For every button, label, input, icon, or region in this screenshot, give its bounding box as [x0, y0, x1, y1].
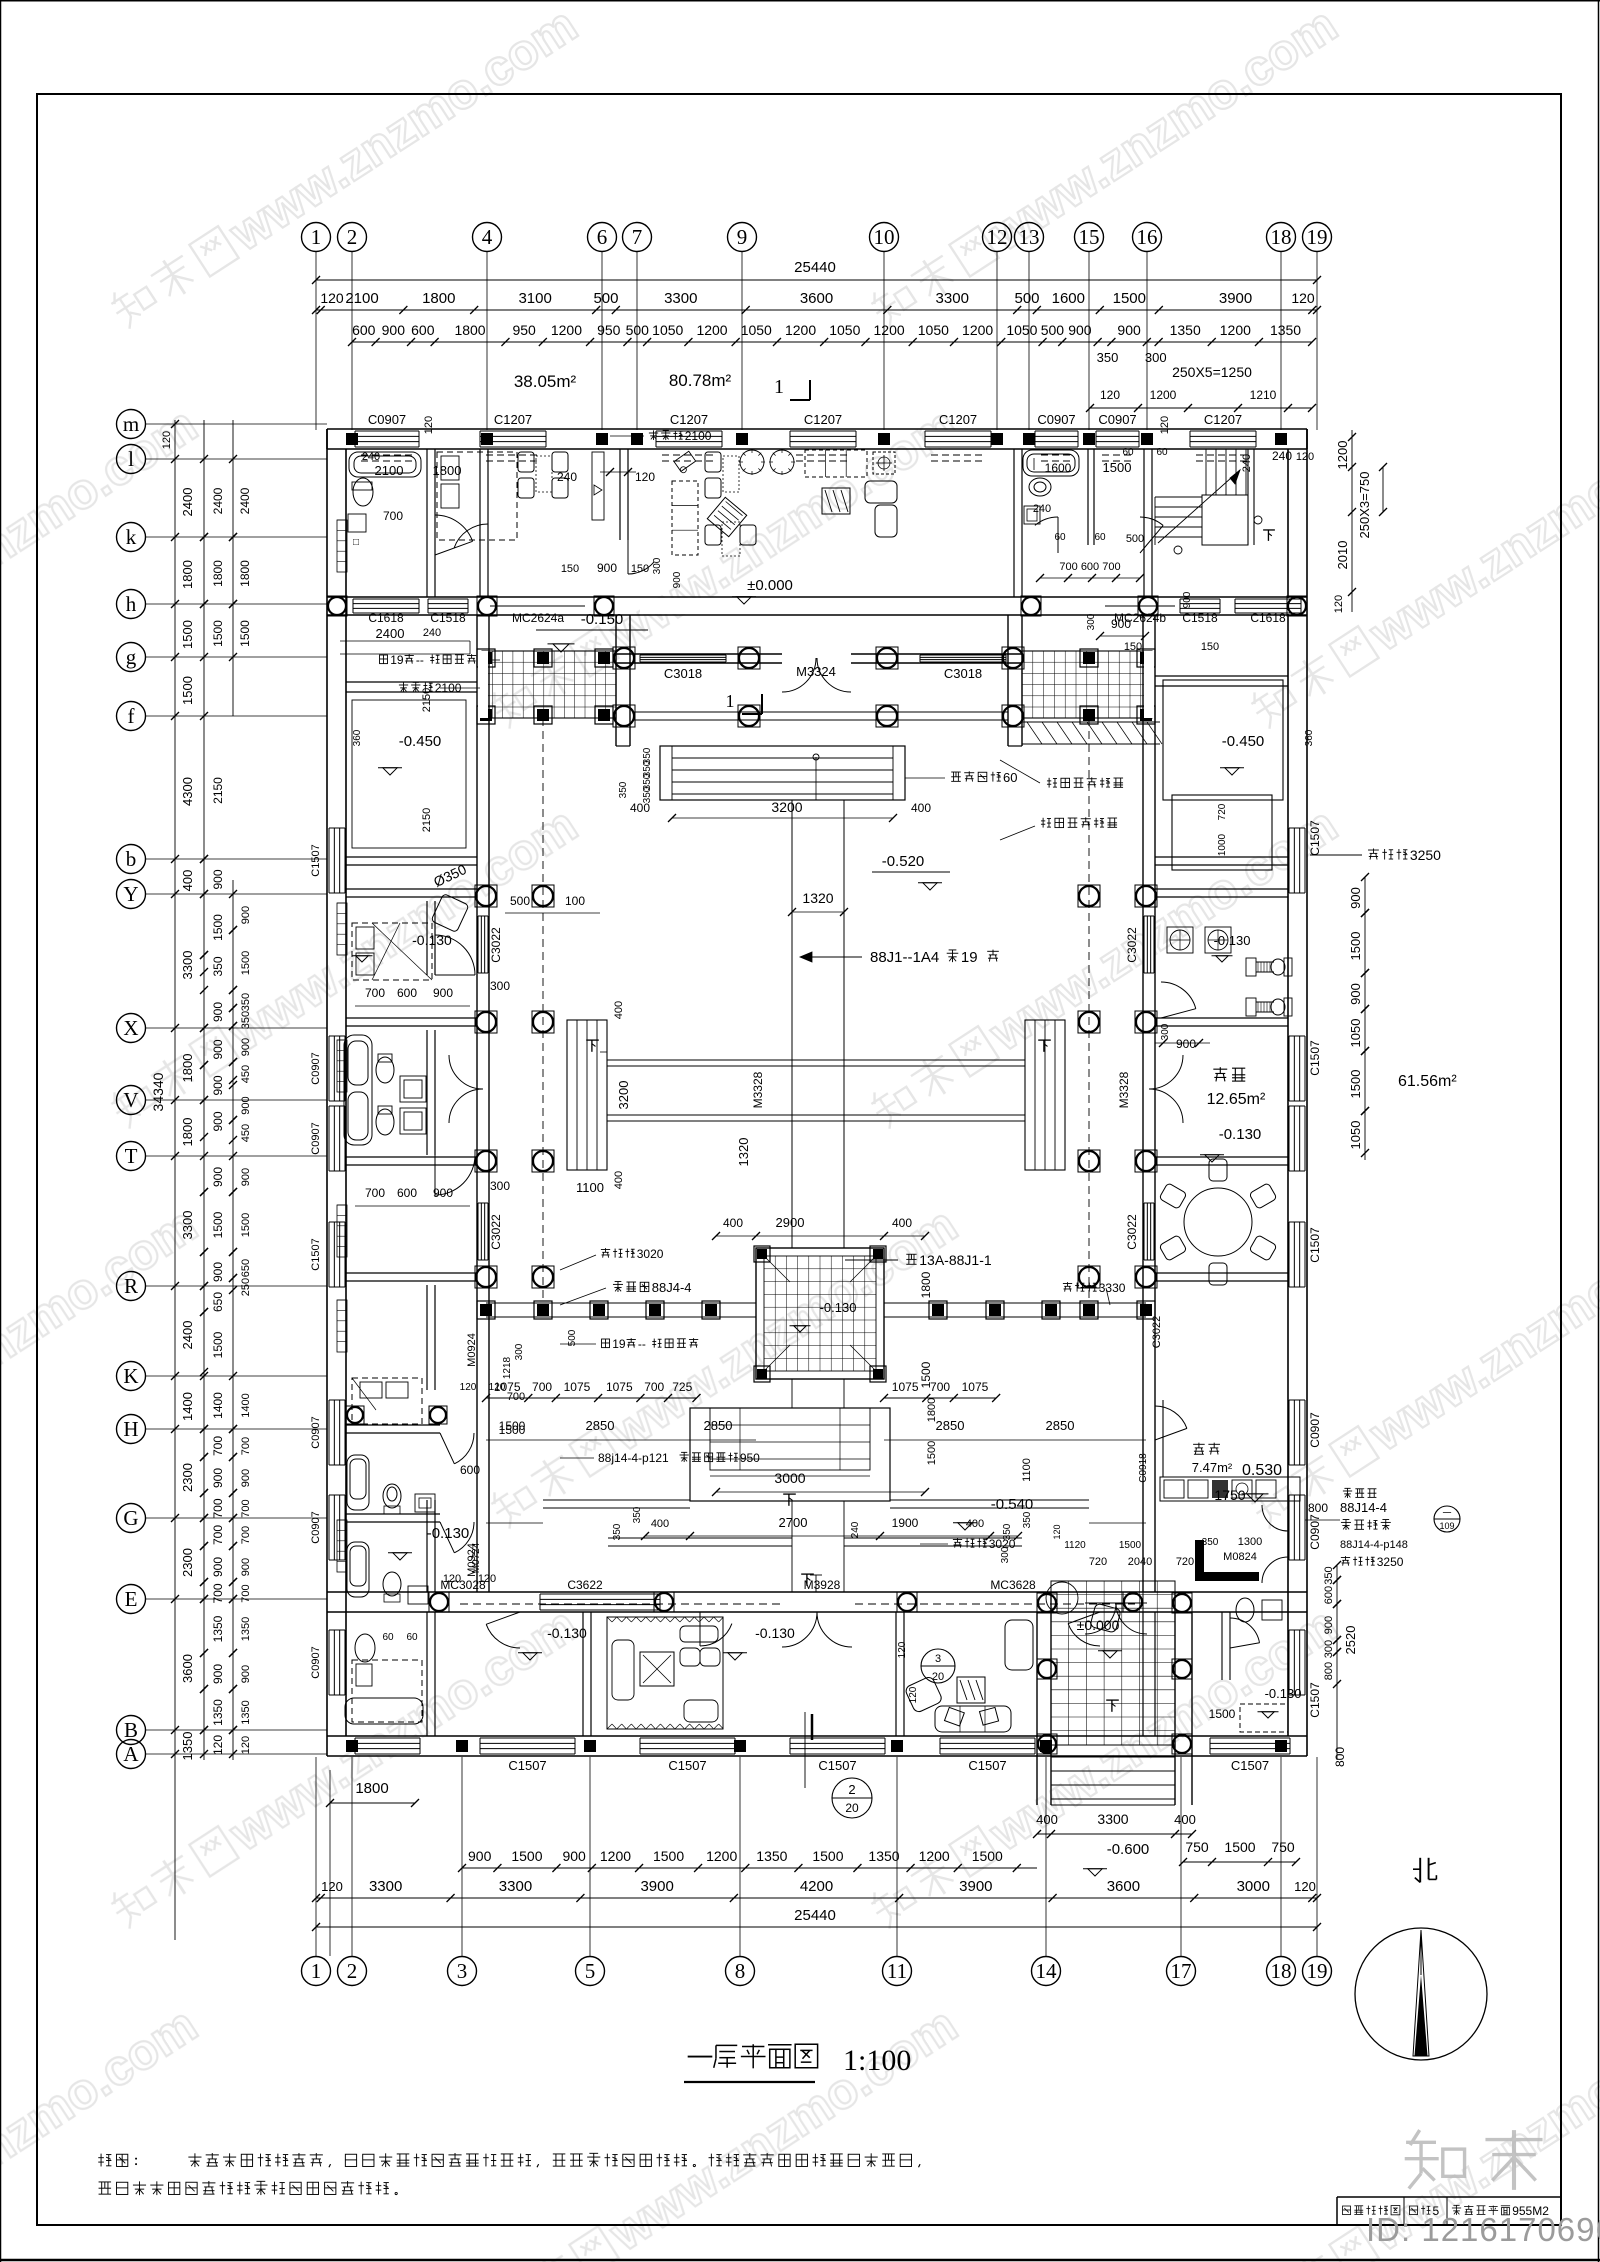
nb tall sofa dotted	[672, 481, 698, 555]
svg-text:1200: 1200	[962, 322, 993, 338]
svg-text:12.65m²: 12.65m²	[1207, 1091, 1266, 1108]
north wall columns	[346, 433, 358, 445]
east wing room label	[1213, 1068, 1227, 1070]
svg-text:700: 700	[930, 1380, 950, 1394]
svg-text:900: 900	[211, 1262, 225, 1282]
svg-text:C0907: C0907	[368, 412, 406, 427]
svg-text:4: 4	[482, 225, 493, 249]
left dim chain third	[232, 420, 234, 716]
svg-text:1500: 1500	[972, 1848, 1003, 1864]
svg-text:1500: 1500	[1209, 1707, 1236, 1721]
svg-text:300: 300	[490, 1179, 510, 1193]
svg-text:2300: 2300	[180, 1548, 195, 1577]
svg-text:900: 900	[211, 1557, 225, 1577]
svg-text:88j14-4-p121: 88j14-4-p121	[598, 1451, 669, 1465]
svg-text:3300: 3300	[936, 290, 969, 307]
svg-text:C3022: C3022	[489, 1214, 503, 1250]
svg-text:C0907: C0907	[310, 1646, 322, 1678]
svg-text:B: B	[124, 1718, 138, 1742]
bottom dim small row	[462, 1867, 1037, 1869]
gatehouse steps below	[1051, 1756, 1175, 1758]
svg-text:19: 19	[1307, 225, 1328, 249]
bottom axis circles	[302, 1957, 331, 1986]
svg-text:1500: 1500	[926, 1441, 938, 1465]
svg-text:www.znzmo.com: www.znzmo.com	[219, 1596, 587, 1862]
svg-text:1800: 1800	[180, 1118, 195, 1147]
south rooms partitions	[426, 1612, 428, 1736]
svg-text:1500: 1500	[511, 1848, 542, 1864]
svg-text:1210: 1210	[1250, 388, 1277, 402]
svg-text:1050: 1050	[918, 322, 949, 338]
svg-text:C1207: C1207	[804, 412, 842, 427]
svg-text:900: 900	[468, 1848, 492, 1864]
svg-text:1800: 1800	[238, 560, 252, 587]
svg-text:1800: 1800	[180, 560, 195, 589]
nb stripe square	[822, 488, 850, 514]
left axis circles	[117, 410, 146, 439]
svg-text:1350: 1350	[868, 1848, 899, 1864]
svg-text:3900: 3900	[959, 1878, 992, 1895]
svg-text:1350: 1350	[240, 1700, 252, 1724]
svg-text:900: 900	[211, 1468, 225, 1488]
svg-text:MC3028: MC3028	[440, 1578, 486, 1592]
svg-text:C0918: C0918	[1138, 1453, 1149, 1483]
courtyard north steps	[660, 746, 905, 800]
svg-text:80.78m²: 80.78m²	[669, 371, 732, 390]
svg-text:1200: 1200	[1150, 388, 1177, 402]
svg-text:900: 900	[1323, 1616, 1335, 1634]
svg-text:7.47m²: 7.47m²	[1192, 1460, 1233, 1475]
colonnade labels	[601, 1248, 610, 1250]
svg-text:2400: 2400	[376, 626, 405, 641]
svg-text:1500: 1500	[211, 1331, 225, 1358]
svg-text:9: 9	[737, 225, 748, 249]
right dim chain top	[1351, 430, 1353, 612]
svg-text:300: 300	[1160, 1023, 1171, 1040]
south exterior wall	[327, 1735, 1307, 1737]
svg-text:1500: 1500	[1119, 1540, 1142, 1551]
ne window marks	[1033, 458, 1035, 470]
nb plants	[740, 450, 764, 474]
svg-text:-0.130: -0.130	[820, 1300, 857, 1315]
svg-text:500: 500	[510, 894, 530, 908]
svg-text:1050: 1050	[1348, 1121, 1363, 1150]
west wing radiators	[337, 903, 347, 955]
svg-text:120: 120	[1291, 290, 1315, 306]
svg-text:1075: 1075	[606, 1380, 633, 1394]
svg-text:-0.150: -0.150	[581, 611, 624, 628]
svg-text:1200: 1200	[785, 322, 816, 338]
screen wall	[1195, 1572, 1259, 1581]
svg-text:300: 300	[1086, 613, 1097, 630]
west wing interior partitions	[346, 856, 477, 858]
top dimension row minor	[352, 341, 1312, 343]
svg-text:13: 13	[1019, 225, 1040, 249]
svg-text:120: 120	[897, 1641, 908, 1658]
svg-text:350: 350	[1323, 1566, 1335, 1584]
svg-text:C1507: C1507	[1231, 1758, 1269, 1773]
svg-text:400: 400	[613, 1171, 625, 1189]
svg-text:950: 950	[740, 1451, 760, 1465]
svg-text:900: 900	[240, 906, 252, 924]
svg-text:400: 400	[1174, 1812, 1196, 1827]
svg-text:-0.130: -0.130	[1265, 1686, 1302, 1701]
svg-text:600: 600	[411, 322, 435, 338]
nb door1	[435, 515, 473, 541]
svg-text:900: 900	[240, 1168, 252, 1186]
svg-text:2: 2	[848, 1782, 855, 1797]
svg-text:16: 16	[1137, 225, 1158, 249]
svg-text:300: 300	[652, 557, 663, 574]
west wing east wall	[476, 615, 478, 1592]
svg-text:1050: 1050	[829, 322, 860, 338]
svg-text:3300: 3300	[499, 1878, 532, 1895]
svg-text:900: 900	[240, 1096, 252, 1114]
svg-text:600: 600	[397, 986, 417, 1000]
bottom dim major row	[316, 1897, 1317, 1899]
svg-text:2700: 2700	[779, 1515, 808, 1530]
svg-text:±0.000: ±0.000	[1077, 1617, 1120, 1633]
svg-text:2850: 2850	[1046, 1418, 1075, 1433]
svg-text:C3022: C3022	[1125, 927, 1139, 963]
west yard walls	[346, 681, 477, 683]
svg-text:3330: 3330	[1099, 1281, 1126, 1295]
svg-text:900: 900	[240, 1469, 252, 1487]
svg-text:1075: 1075	[564, 1380, 591, 1394]
right dim chain middle	[1364, 877, 1366, 1160]
svg-text:l: l	[128, 447, 134, 471]
svg-text:3300: 3300	[369, 1878, 402, 1895]
svg-text:2150: 2150	[421, 808, 433, 832]
svg-text:500: 500	[1041, 322, 1065, 338]
svg-text:350: 350	[240, 993, 252, 1011]
svg-text:2850: 2850	[936, 1418, 965, 1433]
svg-text:120: 120	[423, 416, 435, 434]
svg-text:350: 350	[1202, 1537, 1219, 1548]
svg-text:3300: 3300	[664, 290, 697, 307]
circle 2/20 below	[832, 1778, 872, 1818]
title block	[1337, 2196, 1561, 2198]
svg-text:1500: 1500	[238, 620, 252, 647]
west corridor steps	[567, 1020, 607, 1170]
svg-text:1200: 1200	[1335, 441, 1350, 470]
east wing toilets	[1246, 958, 1256, 976]
svg-text:C1207: C1207	[494, 412, 532, 427]
svg-text:2400: 2400	[238, 487, 252, 514]
svg-text:3300: 3300	[1097, 1811, 1128, 1827]
svg-text:400: 400	[651, 1518, 669, 1530]
svg-text:2040: 2040	[1128, 1556, 1152, 1568]
svg-text:M3328: M3328	[1117, 1071, 1131, 1108]
svg-text:1320: 1320	[802, 890, 833, 906]
corridor vertical lines	[791, 800, 793, 1248]
svg-text:2400: 2400	[180, 1321, 195, 1350]
svg-text:14: 14	[1036, 1959, 1058, 1983]
svg-text:3: 3	[457, 1959, 468, 1983]
svg-text:150: 150	[1201, 641, 1219, 653]
svg-text:900: 900	[672, 571, 683, 588]
svg-text:MC2624a: MC2624a	[512, 611, 564, 625]
south building north wall	[327, 1591, 1307, 1593]
svg-text:800: 800	[1308, 1501, 1328, 1515]
svg-text:109: 109	[1439, 1521, 1454, 1531]
west wing bath H-G	[347, 1455, 369, 1510]
svg-text:2850: 2850	[586, 1418, 615, 1433]
svg-text:1500: 1500	[211, 914, 225, 941]
svg-text:360: 360	[352, 729, 363, 746]
svg-text:-0.130: -0.130	[755, 1625, 795, 1641]
svg-text:--: --	[638, 1337, 646, 1351]
north arrow	[1419, 1858, 1421, 1883]
svg-text:120: 120	[1052, 1524, 1062, 1539]
svg-text:-0.540: -0.540	[991, 1496, 1034, 1513]
svg-text:100: 100	[565, 894, 585, 908]
svg-text:E: E	[125, 1587, 138, 1611]
svg-text:240: 240	[1241, 454, 1253, 472]
north exterior wall	[327, 428, 1307, 430]
svg-text:15: 15	[1079, 225, 1100, 249]
svg-text:725: 725	[672, 1380, 692, 1394]
nb sewing item	[674, 451, 697, 474]
svg-text:250X5=1250: 250X5=1250	[1172, 364, 1252, 380]
svg-text:1500: 1500	[1113, 290, 1146, 307]
northwest veranda columns	[477, 649, 495, 667]
svg-text:60: 60	[1003, 770, 1017, 785]
wall2 round columns	[327, 596, 347, 616]
svg-text:1900: 1900	[892, 1516, 919, 1530]
svg-text:34340: 34340	[150, 1072, 166, 1111]
svg-text:1200: 1200	[696, 322, 727, 338]
svg-text:1: 1	[774, 376, 784, 398]
nb stair NE	[1155, 496, 1202, 498]
svg-text:1320: 1320	[736, 1138, 751, 1167]
svg-text:700: 700	[211, 1498, 225, 1518]
svg-text:-0.130: -0.130	[427, 1525, 470, 1542]
svg-text:8: 8	[735, 1959, 746, 1983]
nb radiator left	[337, 520, 347, 572]
svg-text:19: 19	[961, 949, 978, 966]
svg-text:900: 900	[1111, 617, 1131, 631]
svg-text:120: 120	[460, 1382, 477, 1393]
svg-text:25440: 25440	[794, 259, 836, 276]
east exterior wall	[1306, 429, 1308, 1756]
east wing dining table	[1184, 1188, 1252, 1256]
west exterior wall	[326, 429, 328, 1756]
svg-text:900: 900	[211, 1664, 225, 1684]
svg-text:1050: 1050	[1348, 1019, 1363, 1048]
svg-text:1500: 1500	[1348, 932, 1363, 961]
west wing bath G-E	[347, 1542, 369, 1597]
svg-text:600: 600	[397, 1186, 417, 1200]
svg-text:700: 700	[532, 1380, 552, 1394]
svg-text:C0907: C0907	[1037, 412, 1075, 427]
door M3928	[782, 1612, 817, 1647]
svg-text:1500: 1500	[240, 1213, 252, 1237]
znzmo logo	[1405, 2130, 1543, 2190]
svg-text:11: 11	[887, 1959, 907, 1983]
svg-text:ID: 1216170696: ID: 1216170696	[1366, 2211, 1600, 2248]
svg-text:±0.000: ±0.000	[747, 577, 793, 594]
svg-text:120: 120	[320, 290, 344, 306]
courtyard south wall lines	[608, 1537, 792, 1539]
svg-text:-0.130: -0.130	[412, 932, 452, 948]
svg-text:60: 60	[382, 1632, 394, 1643]
west wing bed upper	[352, 923, 432, 980]
svg-text:C0907: C0907	[310, 1052, 322, 1084]
svg-text:C1207: C1207	[670, 412, 708, 427]
svg-text:K: K	[123, 1364, 138, 1388]
svg-text:120: 120	[161, 431, 173, 449]
svg-text:1800: 1800	[211, 560, 225, 587]
svg-text:2520: 2520	[1343, 1626, 1358, 1655]
svg-text:700: 700	[383, 509, 403, 523]
svg-text:250: 250	[240, 1278, 252, 1296]
gatehouse walls	[1036, 1612, 1038, 1805]
svg-text:-0.520: -0.520	[882, 853, 925, 870]
svg-text:C1507: C1507	[818, 1758, 856, 1773]
south rooms bed left	[352, 1660, 422, 1722]
notes text line2	[99, 2181, 112, 2183]
svg-text:650: 650	[240, 1259, 252, 1277]
svg-text:h: h	[126, 592, 137, 616]
gate porch columns	[613, 647, 635, 669]
gatehouse tile grid	[1051, 1581, 1175, 1745]
svg-text:1350: 1350	[211, 1615, 225, 1642]
svg-text:18: 18	[1271, 225, 1292, 249]
svg-text:3300: 3300	[180, 1211, 195, 1240]
svg-text:M0924: M0924	[466, 1333, 478, 1367]
svg-text:1: 1	[311, 225, 322, 249]
svg-text:-0.450: -0.450	[1222, 733, 1265, 750]
svg-text:1200: 1200	[874, 322, 905, 338]
west wing doors	[435, 935, 475, 975]
svg-text:1200: 1200	[1220, 322, 1251, 338]
svg-text:C1207: C1207	[939, 412, 977, 427]
svg-text:250X3=750: 250X3=750	[1357, 472, 1372, 539]
svg-text:www.znzmo.com: www.znzmo.com	[599, 1996, 967, 2262]
corridor horizontal lines	[607, 1059, 1025, 1061]
west wing door M3328	[449, 1055, 483, 1089]
svg-text:900: 900	[240, 1665, 252, 1683]
svg-text:1400: 1400	[180, 1392, 195, 1421]
svg-text:M3328: M3328	[751, 1071, 765, 1108]
svg-text:400: 400	[892, 1216, 912, 1230]
svg-text:2: 2	[347, 1959, 358, 1983]
east wing west wall	[1142, 615, 1144, 1592]
svg-text:2100: 2100	[685, 429, 712, 443]
door M3324	[782, 658, 816, 692]
svg-text:1350: 1350	[211, 1699, 225, 1726]
svg-text:7: 7	[632, 225, 643, 249]
svg-text:3250: 3250	[1410, 847, 1441, 863]
svg-text:700: 700	[211, 1583, 225, 1603]
svg-text:-0.600: -0.600	[1107, 1841, 1150, 1858]
svg-text:C1507: C1507	[1308, 1682, 1322, 1718]
svg-text:1050: 1050	[741, 322, 772, 338]
svg-text:19: 19	[612, 1337, 626, 1351]
svg-text:17: 17	[1171, 1959, 1192, 1983]
west wing chair upper	[431, 893, 469, 932]
svg-text:750: 750	[1271, 1839, 1295, 1855]
circle 3/20	[921, 1649, 955, 1683]
svg-text:3100: 3100	[518, 290, 551, 307]
svg-text:-0.130: -0.130	[1219, 1126, 1262, 1143]
gatehouse door	[1085, 1603, 1116, 1634]
svg-text:1350: 1350	[1170, 322, 1201, 338]
svg-text:C0907: C0907	[1098, 412, 1136, 427]
svg-text:600: 600	[1323, 1586, 1335, 1604]
svg-text:61.56m²: 61.56m²	[1398, 1073, 1457, 1090]
svg-text:900: 900	[211, 1111, 225, 1131]
north building south wall	[327, 596, 1307, 598]
svg-text:H: H	[123, 1417, 138, 1441]
svg-text:60: 60	[1122, 447, 1134, 458]
small doors south wall	[486, 1624, 520, 1648]
svg-text:1800: 1800	[422, 290, 455, 307]
svg-text:60: 60	[1094, 532, 1106, 543]
left dim chain outer	[174, 420, 176, 1940]
svg-text:10: 10	[874, 225, 895, 249]
south left bath	[355, 1634, 375, 1662]
svg-text:700: 700	[365, 986, 385, 1000]
svg-text:0.530: 0.530	[1242, 1462, 1282, 1479]
svg-text:www.znzmo.com: www.znzmo.com	[0, 396, 207, 662]
svg-text:4200: 4200	[800, 1878, 833, 1895]
svg-text:88J14-4: 88J14-4	[1340, 1500, 1387, 1515]
svg-text:120: 120	[240, 1736, 252, 1754]
svg-text:500: 500	[567, 1329, 578, 1346]
west wing bath tubs	[344, 1035, 372, 1145]
top dimension row 25440	[316, 279, 1317, 281]
square table x	[957, 1677, 985, 1703]
svg-text:720: 720	[1176, 1556, 1194, 1568]
top axis circles	[302, 223, 331, 252]
se bath room	[1221, 1612, 1223, 1680]
nb northwest bath	[349, 452, 421, 477]
south porch lines	[543, 1499, 690, 1501]
svg-text:C1507: C1507	[668, 1758, 706, 1773]
svg-text:800: 800	[1323, 1662, 1335, 1680]
svg-text:2100: 2100	[345, 290, 378, 307]
svg-text:900: 900	[597, 561, 617, 575]
svg-text:C0907: C0907	[1308, 1514, 1322, 1550]
svg-text:350: 350	[1022, 1511, 1033, 1528]
svg-text:88J14-4-p148: 88J14-4-p148	[1340, 1539, 1408, 1551]
living room sofa set ornate	[607, 1617, 723, 1729]
svg-text:M3324: M3324	[796, 664, 836, 679]
svg-text:1120: 1120	[1064, 1540, 1086, 1551]
svg-text:3020: 3020	[637, 1247, 664, 1261]
svg-text:450: 450	[240, 1124, 252, 1142]
svg-text:1800: 1800	[433, 463, 462, 478]
svg-text:120: 120	[1294, 1879, 1316, 1894]
svg-text:700: 700	[211, 1525, 225, 1545]
svg-text:120: 120	[1296, 451, 1314, 463]
svg-text:m: m	[123, 412, 139, 436]
svg-text:www.znzmo.com: www.znzmo.com	[0, 1996, 207, 2262]
nb long sofa dashed	[805, 450, 867, 477]
svg-text:120: 120	[321, 1879, 343, 1894]
svg-text:C1618: C1618	[1250, 611, 1286, 625]
svg-text:3300: 3300	[180, 951, 195, 980]
svg-text:350: 350	[618, 781, 629, 798]
svg-text:60: 60	[1156, 447, 1168, 458]
svg-text:900: 900	[240, 1558, 252, 1576]
svg-text:1500: 1500	[1348, 1070, 1363, 1099]
west wing room walls vertical	[426, 901, 428, 975]
west wing bed lower	[352, 1378, 422, 1424]
svg-text:C0907: C0907	[310, 1511, 322, 1543]
